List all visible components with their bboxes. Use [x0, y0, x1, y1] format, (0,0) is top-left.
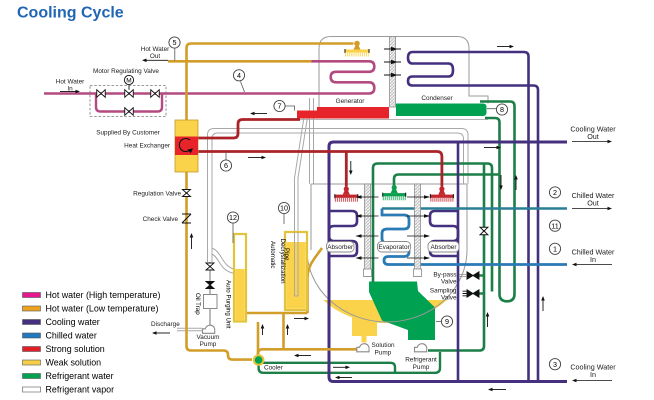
svg-text:Cooling Cycle: Cooling Cycle — [17, 5, 124, 22]
green sampling valve stub — [478, 292, 484, 294]
svg-text:8: 8 — [500, 105, 504, 114]
red heat exchanger to absorber sprays — [198, 152, 442, 187]
customer bypass valve — [125, 108, 134, 116]
arrow green riser — [515, 180, 517, 191]
svg-text:9: 9 — [445, 317, 449, 326]
evaporator spray green — [392, 185, 397, 190]
green cooler bottom line to refrigerant pump — [259, 352, 440, 373]
arrow down to left spray — [350, 161, 352, 171]
legend chip Refrigerant vapor — [23, 387, 41, 392]
bypass small valve on green riser — [480, 227, 488, 235]
yellow riser to purge line — [282, 313, 285, 349]
right absorber spray red — [439, 186, 444, 191]
condenser refrigerant bar — [396, 104, 487, 117]
vapor duct inner line — [212, 133, 464, 262]
svg-text:11: 11 — [551, 221, 558, 230]
purple right absorber downcomer — [457, 142, 460, 382]
legend chip Chilled water — [23, 333, 41, 338]
yellow riser to auto purging unit — [257, 322, 260, 360]
cooler junction ball — [254, 355, 264, 365]
purple cooling water main loop — [329, 142, 567, 382]
purge line valve open — [206, 263, 214, 270]
sampling valve symbol — [467, 290, 479, 298]
arrow solution line left — [299, 355, 312, 357]
legend chip Strong solution — [23, 347, 41, 352]
blue evaporator coil and chilled water in line — [382, 209, 567, 265]
svg-text:1: 1 — [553, 244, 557, 253]
weak solution pool — [323, 300, 447, 323]
svg-text:Out: Out — [150, 53, 161, 60]
node 4 — [241, 82, 245, 93]
svg-text:Pump: Pump — [413, 364, 430, 371]
legend chip Hot water (Low temperature) — [23, 306, 41, 311]
refrigerant water collection shape — [369, 282, 435, 341]
discharge pipe — [177, 328, 202, 331]
upper vessel bottom line — [297, 118, 488, 120]
node 1 — [549, 243, 560, 254]
arrow cooling water in — [577, 380, 613, 382]
svg-text:Refrigerant water: Refrigerant water — [46, 371, 114, 381]
svg-text:Heat Exchanger: Heat Exchanger — [124, 143, 171, 150]
right eliminator column — [415, 184, 421, 277]
purge pipe through valves — [209, 262, 211, 295]
label absorber left — [327, 242, 355, 253]
refrigerant pump — [415, 344, 427, 352]
svg-text:Strong solution: Strong solution — [46, 344, 105, 354]
arrow purple top right — [497, 46, 510, 48]
svg-text:M: M — [126, 78, 131, 85]
automatic decrystallization pipe column — [285, 232, 307, 310]
green refrigerant pump outlet riser — [428, 164, 484, 351]
svg-text:Hot water (High temperature): Hot water (High temperature) — [46, 290, 161, 300]
label absorber right — [428, 242, 459, 253]
red generator to heat exchanger — [198, 120, 300, 139]
yellow purge line — [246, 312, 308, 315]
s-bend duct to auto purging unit — [212, 248, 234, 274]
green condenser outlet hairpin loop — [480, 102, 515, 302]
svg-text:Cooling water: Cooling water — [46, 317, 100, 327]
lower vessel bottom arc — [307, 250, 467, 322]
svg-text:Supplied By Customer: Supplied By Customer — [96, 130, 160, 137]
upper eliminator tick arrows — [384, 49, 401, 75]
lower vessel shell walls and top — [311, 184, 467, 250]
svg-text:Sampling: Sampling — [430, 288, 457, 295]
svg-text:Pipe: Pipe — [283, 248, 290, 261]
vacuum pump — [203, 325, 215, 333]
yellow junction to solution pump — [258, 349, 358, 360]
label evaporator — [378, 242, 411, 253]
arrow hot water in — [60, 91, 76, 93]
purple right absorber coil — [430, 211, 458, 256]
svg-text:4: 4 — [237, 71, 241, 80]
generator weak solution spray — [354, 41, 360, 47]
svg-text:By-pass: By-pass — [433, 272, 456, 279]
by-pass valve symbol — [467, 272, 479, 280]
svg-text:Weak solution: Weak solution — [46, 358, 102, 368]
customer shutoff valve 1 — [97, 90, 106, 98]
svg-text:7: 7 — [278, 102, 282, 111]
vapor pipe generator to decrystallization pipe — [295, 117, 308, 232]
arrow green downcomer — [500, 175, 502, 186]
node 3 — [549, 359, 560, 370]
svg-text:Hot Water: Hot Water — [141, 46, 170, 53]
arrow yellow riser 2 up — [287, 329, 289, 336]
green bypass valve stub — [478, 274, 484, 276]
svg-text:Cooler: Cooler — [264, 365, 284, 372]
arrow below cooler left — [340, 377, 353, 379]
node 5 — [174, 49, 176, 61]
node 9 — [436, 321, 441, 323]
weak solution drain funnel — [352, 314, 377, 343]
legend chip Hot water (High temperature) — [23, 293, 41, 298]
svg-text:5: 5 — [173, 38, 177, 47]
lower vessel right neck — [464, 166, 469, 184]
arrow check valve line up — [191, 238, 193, 250]
arrow in cooler right — [333, 366, 346, 368]
customer shutoff valve 2 — [151, 90, 160, 98]
svg-text:Regulation Valve: Regulation Valve — [133, 191, 181, 198]
green cooler top line — [262, 363, 395, 373]
node 2 — [549, 187, 560, 198]
legend chip Refrigerant water — [23, 374, 41, 379]
purple condenser coil and risers — [408, 52, 538, 382]
svg-text:Absorber: Absorber — [431, 244, 458, 251]
svg-text:Generator: Generator — [336, 98, 366, 105]
pink bypass at motor regulating valve — [96, 94, 162, 112]
legend chip Weak solution — [23, 360, 41, 365]
chilled water out line — [382, 207, 567, 210]
yellow HX down through valves to cooler junction — [187, 172, 253, 360]
svg-text:Refrigerant vapor: Refrigerant vapor — [46, 385, 115, 395]
orange hot water out segment — [168, 60, 312, 63]
svg-text:Pump: Pump — [375, 350, 392, 357]
purge line valve closed — [206, 282, 214, 289]
arrow discharge left — [157, 332, 171, 334]
left absorber spray red — [344, 186, 349, 191]
svg-text:Motor Regulating Valve: Motor Regulating Valve — [93, 68, 159, 75]
svg-text:Solution: Solution — [372, 342, 396, 349]
heat exchanger internal arrow — [179, 139, 190, 152]
svg-text:In: In — [590, 255, 596, 264]
arrow yellow riser 1 up — [262, 329, 264, 336]
svg-text:Vacuum: Vacuum — [197, 334, 220, 341]
arrow green pump riser up — [487, 317, 489, 328]
svg-text:Condenser: Condenser — [421, 95, 453, 102]
supplied by customer dashed box — [90, 86, 166, 117]
generator strong solution bar step — [297, 111, 319, 119]
left eliminator column — [365, 184, 371, 277]
node 7 — [285, 106, 295, 111]
vapor pipe generator to lower vessel — [310, 98, 314, 184]
svg-text:Hot Water: Hot Water — [56, 79, 85, 86]
arrow cooling water out — [572, 141, 608, 143]
pink hot water in and generator coil — [44, 61, 374, 93]
svg-text:Out: Out — [587, 198, 599, 207]
generator strong solution bar — [317, 107, 389, 119]
oil trap box — [204, 295, 218, 309]
svg-text:Decrystallization: Decrystallization — [279, 239, 286, 285]
arrow red to HX — [255, 113, 268, 115]
node 8 — [487, 108, 497, 110]
svg-text:Chilled water: Chilled water — [46, 331, 97, 341]
svg-text:Absorber: Absorber — [327, 244, 354, 251]
check valve — [182, 214, 191, 223]
svg-text:Refrigerant: Refrigerant — [405, 357, 437, 364]
yellow HX to generator spray — [187, 44, 354, 121]
svg-text:Oil Trap: Oil Trap — [194, 293, 201, 315]
svg-text:Valve: Valve — [441, 279, 457, 286]
upper vessel shell — [319, 37, 488, 111]
arrow on cooling water line — [484, 147, 497, 149]
node 10 — [283, 214, 285, 225]
svg-text:3: 3 — [553, 360, 557, 369]
legend chip Cooling water — [23, 320, 41, 325]
arrow purge line right — [294, 318, 305, 320]
svg-text:In: In — [590, 370, 596, 379]
motor regulating valve — [125, 90, 134, 98]
arrow purple riser right — [542, 301, 544, 312]
regulation valve — [183, 190, 191, 197]
green evaporator liquid line into vessel — [373, 164, 492, 292]
node 12 — [232, 223, 234, 243]
node 6 — [225, 152, 227, 160]
eliminator arrows lower vessel — [357, 197, 430, 258]
svg-text:12: 12 — [229, 213, 237, 222]
svg-text:Auto Purging Unit: Auto Purging Unit — [225, 280, 232, 329]
arrow chilled water out — [572, 208, 608, 210]
svg-text:10: 10 — [280, 204, 288, 213]
svg-text:Valve: Valve — [441, 295, 457, 302]
arrow bottom purple left — [493, 389, 507, 391]
solution pump — [357, 344, 369, 352]
svg-text:6: 6 — [224, 161, 228, 170]
svg-text:Discharge: Discharge — [151, 321, 180, 328]
purple left absorber coil — [329, 211, 357, 256]
auto purging unit column — [234, 234, 246, 322]
yellow vessel drain curve — [308, 248, 323, 313]
node 11 — [549, 220, 560, 231]
arrow hot water out — [147, 59, 169, 61]
arrow red to sprays — [248, 157, 262, 159]
purple vertical below cooling water out — [527, 142, 530, 382]
green line to evaporator spray — [394, 175, 500, 187]
vapor duct outer line — [208, 129, 469, 263]
svg-text:Evaporator: Evaporator — [378, 244, 410, 251]
svg-text:Out: Out — [587, 132, 599, 141]
arrow chilled water in — [577, 264, 613, 266]
svg-text:Check Valve: Check Valve — [143, 216, 179, 223]
svg-text:Pump: Pump — [200, 341, 217, 348]
upper eliminator column — [390, 37, 396, 108]
heat exchanger — [175, 120, 198, 172]
svg-text:2: 2 — [553, 188, 557, 197]
pipe inside decrystallization column — [295, 232, 299, 296]
svg-text:Hot water (Low temperature): Hot water (Low temperature) — [46, 304, 159, 314]
svg-text:Automatic: Automatic — [269, 241, 276, 269]
red branch to left absorber spray — [345, 152, 348, 187]
